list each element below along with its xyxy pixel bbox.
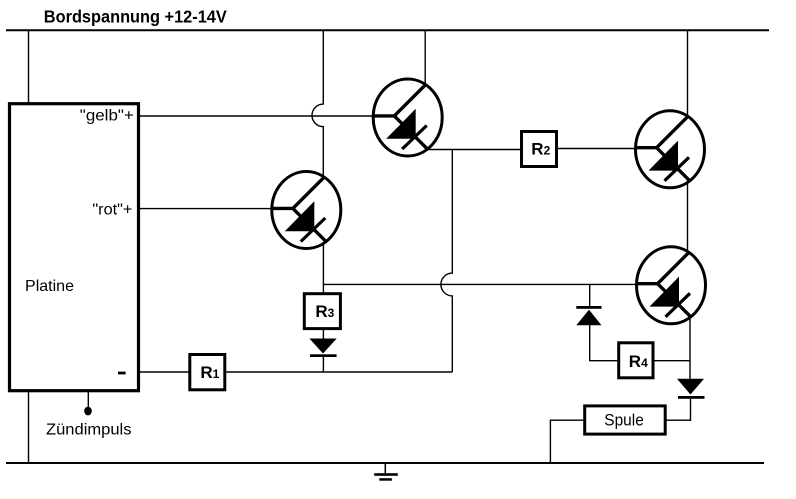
diode D3 [677,379,704,395]
transistor Q1 [373,79,442,156]
diode D1 [309,339,336,354]
transistor Q4 [637,247,706,324]
svg-text:Platine: Platine [25,278,74,295]
resistor R2 [522,132,557,167]
wire base junction down to D2 [589,284,591,307]
wire Q1 emitter to R2 [427,149,521,151]
wire minus to R1 [140,371,189,373]
wire Q4 emitter down [689,316,691,379]
svg-text:R1: R1 [200,363,219,382]
diode D2 [576,306,601,309]
wire Q1 collector to rail [424,30,426,86]
transistor Q3 [636,111,705,188]
wire Zündimpuls stub [87,392,89,407]
Platine box [10,104,139,391]
wire Platine bottom to ground rail [28,392,30,463]
wire D3 down to Spule level [690,399,692,421]
label minus [118,372,126,375]
svg-text:R4: R4 [629,352,648,371]
svg-text:Spule: Spule [604,412,644,430]
wire Spule to ground rail [550,420,586,463]
svg-text:"gelb"+: "gelb"+ [80,107,134,124]
wire D3 to Spule [666,419,691,421]
resistor R1 [190,355,225,390]
wire rail to Platine top [28,30,30,103]
svg-text:Bordspannung +12-14V: Bordspannung +12-14V [44,6,227,26]
wire R4 to Q4 emitter line [652,360,690,362]
transistor Q2 [272,172,341,249]
wire rot to Q2 base [140,208,273,210]
wire Q3 emitter to Q4 collector [687,180,689,254]
wire rail to Q3 collector [687,30,689,118]
node Zündimpuls dot [84,407,92,416]
wire D2 to R4 corner [590,325,618,361]
wire R1 to corner junction [226,371,452,373]
wire R2 to Q3 base [557,148,638,150]
svg-text:Zündimpuls: Zündimpuls [46,421,132,438]
wire rail to Q2 collector with hop over gelb wire [312,30,323,179]
resistor R4 [619,343,653,378]
svg-text:R3: R3 [315,302,334,321]
svg-text:R2: R2 [531,140,550,159]
inductor Spule box [585,406,666,434]
resistor R3 [304,294,340,329]
wire junction up with hop over base wire [441,150,452,373]
wire Q2 emitter to Q4 base [323,283,637,285]
wire gelb to Q1 base [140,115,374,117]
wire R3 to diode D1 [322,329,324,340]
wire +12V top rail [6,29,769,31]
wire D1 to R1 output wire [322,356,324,372]
wire Q2 emitter down to R3 [322,243,324,293]
wire ground bottom rail [6,462,764,464]
svg-text:"rot"+: "rot"+ [92,202,132,219]
ground symbol [384,463,386,475]
